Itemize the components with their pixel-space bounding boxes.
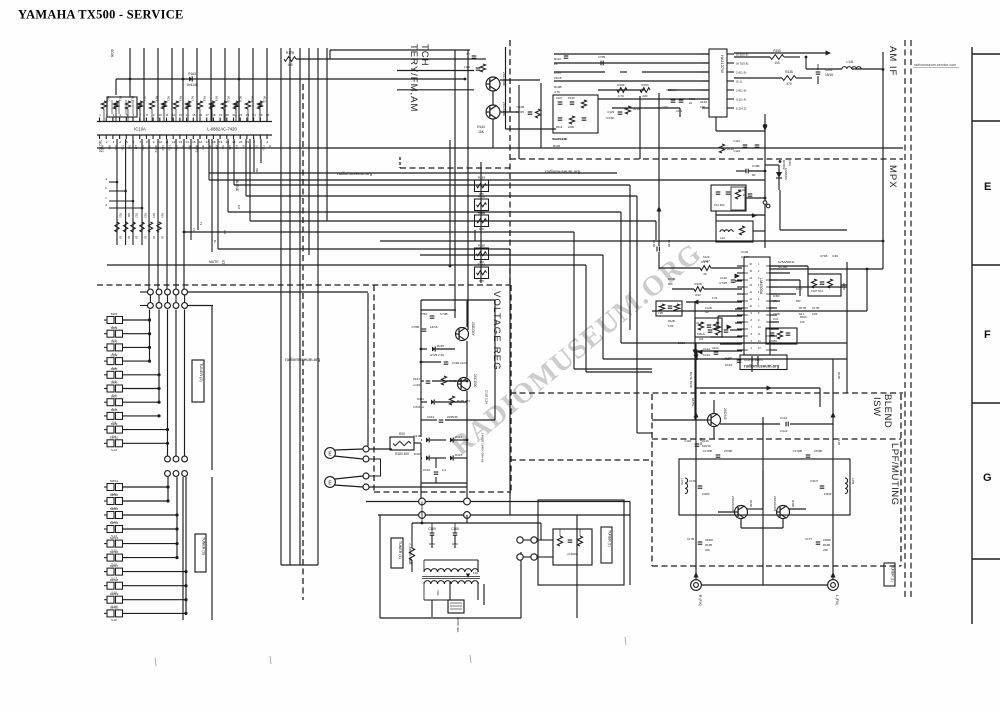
- arrows MPX left: [735, 273, 740, 278]
- capacitor C10B: [745, 169, 747, 174]
- svg-text:R15: R15: [161, 213, 164, 218]
- IC pin net-name labels below IC10A: [101, 145, 273, 153]
- svg-text:11: 11: [165, 113, 168, 117]
- svg-text:R144: R144: [477, 125, 485, 129]
- svg-text:2.8(1.9): 2.8(1.9): [736, 71, 746, 75]
- svg-text:1N60: 1N60: [773, 294, 780, 298]
- label TUNER(3) boxed: [195, 534, 206, 572]
- vertical x695 down: [694, 302, 696, 420]
- svg-text:MUTE: MUTE: [101, 145, 105, 153]
- svg-text:0.0047: 0.0047: [810, 479, 818, 483]
- power box right vertical x521: [520, 552, 522, 618]
- svg-text:L17D: L17D: [680, 478, 684, 485]
- switch SW10: [104, 436, 169, 453]
- transformer T101 primary: [424, 569, 478, 572]
- capacitor cluster 3300P right: [805, 537, 831, 552]
- section boundary dashed vertical x510: [509, 40, 511, 285]
- svg-text:56K: 56K: [796, 299, 801, 303]
- svg-text:R11C: R11C: [554, 57, 562, 61]
- svg-text:ISW: ISW: [871, 397, 882, 416]
- svg-text:R155: R155: [773, 49, 781, 53]
- svg-text:10: 10: [159, 140, 163, 144]
- svg-text:VOLTAGE REG: VOLTAGE REG: [491, 291, 502, 371]
- svg-text:C141: C141: [780, 416, 788, 420]
- wire y79 extension: [386, 78, 465, 80]
- resistor R17L: [700, 266, 711, 271]
- svg-text:BLEND: BLEND: [882, 394, 893, 428]
- dashed box VOLTAGE REG: [374, 285, 511, 492]
- svg-text:1K: 1K: [161, 236, 164, 239]
- svg-text:R19: R19: [214, 96, 218, 102]
- diode D201 1N60 vertical: [776, 172, 782, 178]
- svg-text:R161: R161: [478, 211, 486, 215]
- bus line y501 with junctions: [366, 501, 630, 503]
- svg-text:20: 20: [226, 113, 230, 117]
- LPF coil right L355: [845, 478, 848, 494]
- wire connector loop 459-476: [369, 459, 381, 476]
- switch SW7: [104, 394, 161, 411]
- svg-text:47K: 47K: [479, 279, 484, 283]
- wire drops below IC10A: [117, 139, 261, 252]
- svg-text:19KHz: 19KHz: [697, 332, 705, 336]
- frame tick third: [972, 402, 1000, 404]
- svg-text:R126: R126: [702, 439, 709, 443]
- svg-text:TUNER (1): TUNER (1): [398, 541, 402, 559]
- svg-text:R162: R162: [478, 195, 486, 199]
- svg-text:15/16: 15/16: [825, 73, 833, 77]
- svg-text:R129: R129: [727, 147, 734, 151]
- bus verticals between circle rows: [150, 295, 184, 303]
- svg-text:R112: R112: [556, 125, 563, 129]
- svg-text:22K: 22K: [642, 94, 647, 98]
- label TUNER(1) boxed power: [391, 538, 403, 568]
- filter box C11/R11: [711, 185, 746, 211]
- svg-text:23: 23: [246, 113, 250, 117]
- arrow down x765: [762, 126, 767, 131]
- svg-text:R102: R102: [553, 144, 561, 148]
- svg-text:(6.7)(5.8): (6.7)(5.8): [736, 62, 748, 66]
- resistor R16B: [441, 376, 446, 385]
- IC pin numbers bottom: [99, 140, 269, 144]
- watermark RADIOMUSEUM.ORG: [445, 238, 708, 462]
- svg-text:0.01: 0.01: [773, 317, 779, 321]
- svg-text:R164: R164: [478, 263, 486, 267]
- wire verticals long buses x281-x318: [281, 48, 318, 565]
- svg-text:2265/2F: 2265/2F: [447, 415, 458, 419]
- filter box L12: [716, 221, 753, 242]
- wire connector row449 to R183: [369, 448, 392, 450]
- output terminal R FIX: [691, 580, 702, 591]
- label TUNER(2) boxed: [192, 360, 204, 402]
- svg-text:2SD234Y: 2SD234Y: [471, 322, 475, 337]
- svg-text:L101: L101: [464, 65, 471, 69]
- wires MPX right pins: [769, 262, 847, 393]
- wire y388 with arrow: [695, 387, 820, 389]
- svg-text:C10B: C10B: [752, 164, 760, 168]
- frame right border vertical: [971, 47, 973, 624]
- wire IC U2 bottom drop: [715, 117, 717, 131]
- switch SW17: [104, 564, 188, 581]
- svg-text:MUTE: MUTE: [209, 260, 219, 264]
- wire vertical x659 with arrow and capacitor: [658, 93, 660, 246]
- svg-text:L12: L12: [720, 236, 725, 240]
- wire pair to FM section: [296, 58, 470, 60]
- svg-text:C12B: C12B: [696, 321, 703, 325]
- svg-text:5.2(4.2): 5.2(4.2): [736, 107, 746, 111]
- svg-text:14M20-1640Y 08A-66: 14M20-1640Y 08A-66: [481, 433, 485, 463]
- IC pin ticks bottom row: [100, 135, 268, 139]
- connector circles row 4: [165, 471, 188, 477]
- wire x765 node: [764, 170, 767, 173]
- resistor R168 R33: [694, 287, 704, 292]
- svg-text:R11: R11: [127, 213, 130, 218]
- section boundary dashed horizontal y168 step: [400, 167, 510, 169]
- svg-text:13: 13: [179, 140, 183, 144]
- svg-text:SW1: SW1: [111, 312, 118, 316]
- wire staircase y180 long east: [209, 179, 765, 181]
- svg-text:0.022: 0.022: [780, 429, 788, 433]
- connector circles power: [517, 537, 537, 560]
- pilot components cluster: [696, 321, 728, 341]
- svg-text:100: 100: [287, 63, 293, 67]
- svg-text:S-20: S-20: [111, 618, 117, 622]
- capacitor 2700P left: [716, 454, 721, 456]
- wire tuner2 box right edge: [211, 306, 213, 470]
- svg-text:ST: ST: [221, 260, 225, 264]
- IC U3 pin stubs left: [737, 266, 744, 350]
- diode F01 arrow: [466, 574, 470, 578]
- svg-text:0.0056: 0.0056: [769, 339, 777, 343]
- svg-text:7/50: 7/50: [421, 312, 427, 316]
- svg-text:R106: R106: [617, 83, 625, 87]
- wire y90 east: [397, 89, 474, 91]
- svg-text:C126: C126: [684, 439, 691, 443]
- svg-text:2400P: 2400P: [823, 538, 831, 542]
- svg-text:L-0882AC-7420: L-0882AC-7420: [207, 127, 237, 132]
- transformer core lines: [422, 576, 480, 578]
- svg-text:10: 10: [159, 113, 163, 117]
- frame tick bottom: [972, 558, 1000, 560]
- svg-text:C17B: C17B: [687, 537, 694, 541]
- svg-text:2700P: 2700P: [724, 449, 732, 453]
- switch contacts ISW on x765: [763, 201, 767, 205]
- wire between output terminals: [701, 584, 828, 586]
- svg-text:R44B: R44B: [791, 500, 795, 507]
- svg-text:220: 220: [668, 282, 673, 286]
- filter box S14: [808, 274, 841, 296]
- resistor R136 470: [782, 76, 796, 81]
- svg-text:C129: C129: [607, 110, 614, 114]
- svg-text:R17: R17: [190, 96, 194, 102]
- wire staircase y185 east: [234, 184, 630, 186]
- capacitor C141 0.022: [785, 422, 787, 427]
- switch SW12: [104, 493, 170, 510]
- svg-text:22: 22: [689, 101, 692, 105]
- wire staircase y212 east corner x621: [228, 211, 621, 213]
- switch SW13: [104, 507, 179, 524]
- svg-text:R112 2200: R112 2200: [552, 137, 567, 141]
- svg-text:BLEND: BLEND: [235, 180, 239, 192]
- switch SW14: [104, 521, 179, 538]
- label TUNER(1) boxed inner: [601, 527, 612, 563]
- junction circles on buses: [419, 498, 471, 518]
- wire bus row2 east to tuner2 frame: [188, 305, 214, 307]
- diode D417: [450, 455, 453, 460]
- capacitor C130 bottom of U3: [737, 359, 742, 361]
- svg-text:R20: R20: [399, 432, 405, 436]
- capacitor C12A 10/16: [714, 351, 719, 353]
- svg-text:4.7K: 4.7K: [618, 94, 624, 98]
- label TUNER(1) boxed right edge: [884, 563, 895, 586]
- svg-text:22: 22: [239, 140, 243, 144]
- diode D41B: [426, 437, 429, 442]
- svg-text:4K: 4K: [703, 272, 707, 276]
- svg-text:AM IF: AM IF: [887, 46, 898, 76]
- wire y148 drop x868: [867, 148, 869, 159]
- bus verticals to tuner rows: [149, 139, 184, 293]
- output terminal L FIX: [828, 580, 839, 591]
- svg-text:22K: 22K: [705, 548, 710, 552]
- wires MPX left pins: [686, 268, 742, 360]
- svg-text:C12B: C12B: [516, 105, 524, 109]
- dashed box BLEND LPF/MUTING: [652, 394, 901, 566]
- svg-text:C17DB: C17DB: [703, 449, 712, 453]
- switch SW2: [104, 326, 151, 343]
- svg-text:D416: D416: [414, 452, 422, 456]
- wire y343 east to x847: [616, 342, 618, 344]
- svg-text:C166: C166: [423, 468, 431, 472]
- svg-text:13: 13: [179, 113, 183, 117]
- svg-text:SW12: SW12: [110, 493, 119, 497]
- svg-text:10K: 10K: [800, 320, 805, 324]
- IF wires to IC: [554, 54, 709, 117]
- svg-text:470: 470: [786, 82, 792, 86]
- svg-text:YAMAHA TX500 - SERVICE: YAMAHA TX500 - SERVICE: [18, 8, 184, 22]
- resistor column R160-R164 boxed: [475, 162, 489, 283]
- wire power connector links: [523, 523, 553, 557]
- wire y255 corner x603: [602, 255, 604, 359]
- svg-text:MUTE: MUTE: [691, 398, 695, 407]
- switch SW20: [104, 606, 188, 623]
- svg-text:2SK30ACR: 2SK30ACR: [731, 496, 735, 512]
- svg-text:R17B: R17B: [286, 51, 294, 55]
- svg-text:R113: R113: [262, 96, 266, 103]
- svg-text:R10B: R10B: [554, 85, 562, 89]
- svg-text:F01: F01: [473, 571, 479, 575]
- IC U2 pin stubs left: [702, 54, 709, 108]
- svg-text:18: 18: [212, 140, 216, 144]
- wire vertical x780 AM det: [779, 190, 781, 230]
- svg-text:10/16: 10/16: [725, 363, 732, 367]
- right power sub-box inner: [553, 529, 592, 565]
- svg-text:4.7/25: 4.7/25: [719, 281, 727, 285]
- wires around FM transistors: [455, 50, 540, 330]
- svg-text:C17B: C17B: [842, 283, 846, 290]
- switch SW1: [104, 312, 151, 329]
- svg-text:SW4: SW4: [111, 353, 118, 357]
- svg-text:18: 18: [212, 113, 216, 117]
- wire y311 long: [652, 310, 867, 312]
- svg-text:R136: R136: [785, 70, 793, 74]
- svg-text:C25A/56F11: C25A/56F11: [778, 260, 795, 264]
- wire y269 from MPX to right border: [769, 268, 883, 270]
- svg-text:TUNER (2): TUNER (2): [199, 363, 203, 383]
- coil L141: [842, 67, 861, 69]
- wire vertical x867: [866, 269, 868, 311]
- svg-text:15/16: 15/16: [554, 76, 562, 80]
- sub box C17R: [766, 328, 797, 344]
- power vertical x577: [576, 515, 578, 618]
- capacitor C261 15/16: [816, 71, 821, 73]
- terminal E1 antenna: [325, 448, 336, 459]
- transistor Q201 blend: [708, 414, 721, 427]
- switch SW16: [104, 550, 179, 567]
- section boundary dashed horizontal y159 AM IF / MPX: [510, 158, 903, 160]
- svg-text:HT25 2.2K: HT25 2.2K: [430, 353, 444, 357]
- svg-text:2200: 2200: [568, 125, 574, 129]
- power vertical x484: [483, 584, 485, 605]
- svg-text:C17DB: C17DB: [793, 449, 802, 453]
- registration marks bottom: [155, 637, 626, 666]
- svg-text:IF: IF: [268, 145, 272, 148]
- svg-text:R168: R168: [695, 282, 702, 286]
- diode D411 HT211A: [431, 399, 434, 404]
- svg-text:GD202: GD202: [782, 160, 786, 170]
- capacitor C160: [444, 361, 449, 363]
- svg-text:4.7/25: 4.7/25: [516, 110, 525, 114]
- section boundary dashed stub x400: [399, 157, 401, 168]
- wire verticals from top edge into IC10A: [130, 48, 267, 122]
- svg-text:1N4148: 1N4148: [186, 83, 197, 87]
- svg-text:L (FIX): L (FIX): [835, 595, 839, 605]
- wires U3 bottom: [640, 356, 758, 372]
- vertical rails blend: [696, 343, 833, 585]
- resistor R17B 100 top: [284, 57, 296, 62]
- svg-text:SW10: SW10: [110, 436, 119, 440]
- svg-text:R163: R163: [478, 176, 486, 180]
- svg-text:L141: L141: [846, 60, 853, 64]
- svg-text:2SC945: 2SC945: [723, 408, 727, 420]
- svg-text:C121: C121: [733, 139, 740, 143]
- wire solid right border x883: [882, 52, 884, 269]
- sub-circuit box above IC pins 1-5: [107, 97, 137, 117]
- IC U2 bottom components: [719, 139, 759, 153]
- bus verticals group1: [150, 310, 185, 457]
- wire vertical x640: [639, 96, 641, 159]
- svg-text:E: E: [984, 181, 991, 193]
- svg-text:0.1(1.4): 0.1(1.4): [736, 98, 746, 102]
- svg-text:Y1B: Y1B: [658, 311, 663, 315]
- svg-text:SW6: SW6: [111, 381, 118, 385]
- svg-text:C107: C107: [556, 96, 563, 100]
- frame tick very top: [972, 53, 1000, 55]
- net labels at drop ends: [192, 168, 259, 244]
- connector CB101 labels left edge: [98, 140, 143, 209]
- wire y53 arrow east: [734, 52, 826, 54]
- svg-text:D412: D412: [455, 435, 463, 439]
- svg-text:0.33: 0.33: [712, 296, 718, 300]
- svg-text:radiomuseum.org: radiomuseum.org: [744, 364, 780, 369]
- capacitor cluster 3300P left: [687, 537, 713, 552]
- svg-text:C17T: C17T: [805, 537, 812, 541]
- switch SW3: [104, 340, 151, 357]
- svg-text:R18: R18: [202, 96, 206, 102]
- svg-text:SGW: SGW: [110, 49, 114, 58]
- svg-text:C122: C122: [733, 149, 740, 153]
- svg-text:C167 S14: C167 S14: [811, 289, 823, 293]
- svg-text:AC/DC SEL: AC/DC SEL: [456, 617, 460, 633]
- svg-text:16: 16: [199, 113, 203, 117]
- svg-text:SW5: SW5: [111, 367, 118, 371]
- svg-text:14/16: 14/16: [430, 325, 438, 329]
- switch SW18: [104, 578, 188, 595]
- section boundary dashed vertical x905: [904, 40, 906, 600]
- svg-text:0.047: 0.047: [703, 259, 710, 263]
- diode R163 1N4148: [189, 76, 192, 81]
- svg-text:FM: FM: [237, 205, 241, 209]
- svg-text:C160 14/16: C160 14/16: [452, 361, 468, 365]
- svg-text:100/16: 100/16: [702, 444, 711, 448]
- capacitor C168: [453, 532, 458, 534]
- svg-text:SW14: SW14: [110, 521, 119, 525]
- resistor R190 vertical: [409, 548, 414, 560]
- svg-text:1N60(M): 1N60(M): [784, 168, 788, 180]
- arrow x695: [692, 350, 697, 355]
- wires MPX filters: [716, 197, 766, 248]
- connector circles row 3: [165, 456, 188, 462]
- svg-text:C163: C163: [427, 415, 435, 419]
- svg-text:1K: 1K: [144, 236, 147, 239]
- svg-text:TCH: TCH: [419, 44, 430, 67]
- svg-text:C130: C130: [725, 356, 732, 360]
- svg-text:C17B: C17B: [812, 306, 819, 310]
- svg-text:1K: 1K: [127, 236, 130, 239]
- svg-text:R16B: R16B: [749, 500, 753, 507]
- bus verticals group2: [168, 477, 186, 613]
- svg-text:22K: 22K: [823, 548, 828, 552]
- diode D412: [450, 437, 453, 442]
- svg-text:R17: R17: [799, 312, 805, 316]
- svg-text:R187: R187: [437, 344, 445, 348]
- svg-text:L355: L355: [851, 478, 855, 485]
- diode D416: [426, 455, 429, 460]
- wire staircase y232 east corner x574: [184, 231, 574, 233]
- svg-text:IF: IF: [208, 145, 212, 148]
- svg-text:C12A: C12A: [703, 347, 710, 351]
- svg-text:26: 26: [266, 113, 270, 117]
- svg-text:12: 12: [172, 113, 176, 117]
- svg-text:C70B: C70B: [598, 55, 605, 59]
- svg-text:SW19: SW19: [110, 592, 119, 596]
- svg-text:60: 60: [752, 173, 756, 177]
- right power sub-box outer: [538, 500, 624, 585]
- capacitor R14L 47: [748, 193, 753, 195]
- svg-text:15: 15: [192, 113, 196, 117]
- svg-text:R163: R163: [188, 72, 196, 76]
- capacitor C166: [434, 471, 439, 473]
- wire connector row487 east: [369, 486, 467, 488]
- svg-text:SW15: SW15: [110, 536, 119, 540]
- svg-text:SW2: SW2: [111, 326, 118, 330]
- switch SW15: [104, 536, 179, 553]
- wire R183 to bus: [414, 442, 421, 444]
- wire LPF internals: [679, 459, 806, 536]
- watermark small radiomuseum.org top-right: [913, 67, 959, 69]
- svg-text:1/64: 1/64: [812, 312, 818, 316]
- svg-text:10/16: 10/16: [678, 341, 685, 345]
- svg-text:HA1137W: HA1137W: [720, 55, 725, 73]
- svg-text:R16B: R16B: [823, 543, 830, 547]
